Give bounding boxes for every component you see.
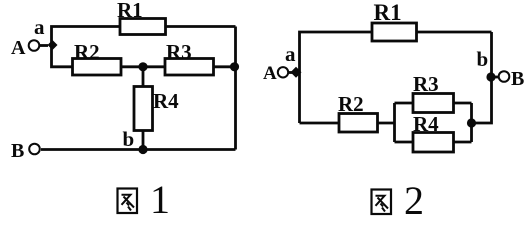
svg-text:R2: R2 <box>338 92 364 116</box>
svg-text:R4: R4 <box>413 112 439 136</box>
svg-text:R1: R1 <box>117 0 143 22</box>
svg-text:B: B <box>11 140 24 162</box>
wire circuit2 R3 branch left stub <box>395 102 414 105</box>
svg-text:a: a <box>285 42 296 66</box>
wire circuit2 R2 right to parallel junction <box>378 122 395 125</box>
wire circuit2 right bracket of parallel R3 R4 <box>470 103 473 142</box>
caption figure 2 glyph tu (drawn) <box>372 190 392 215</box>
wire circuit1 right vertical rail <box>234 27 237 150</box>
terminal B circle (circuit 1) <box>29 144 40 155</box>
node a junction dot (circuit 2) <box>291 67 302 78</box>
resistor R3 (circuit 2) <box>413 94 454 113</box>
svg-text:2: 2 <box>404 178 424 220</box>
junction dot parallel output (circuit 2) <box>467 118 476 127</box>
wire circuit2 right vertical rail <box>472 32 492 123</box>
wire circuit2 left bracket of parallel R3 R4 <box>393 103 396 142</box>
terminal A circle (circuit 1) <box>29 40 40 51</box>
junction dot R2/R3/R4 node (circuit 1) <box>138 62 147 71</box>
svg-text:R2: R2 <box>74 40 100 64</box>
terminal B circle (circuit 2) <box>499 71 510 82</box>
svg-text:B: B <box>511 68 524 90</box>
svg-text:1: 1 <box>150 177 170 220</box>
resistor R4 (circuit 1, vertical) <box>134 87 153 131</box>
terminal A circle (circuit 2) <box>278 67 288 77</box>
svg-text:R3: R3 <box>413 72 439 96</box>
wire circuit1 junction down to R4 <box>142 67 145 87</box>
svg-text:A: A <box>11 37 26 59</box>
wire circuit2 R4 branch right stub <box>454 141 472 144</box>
resistor R4 (circuit 2) <box>413 133 454 153</box>
svg-text:A: A <box>263 63 277 84</box>
wire circuit1 R1 right to right rail <box>166 25 236 28</box>
junction dot R3 right on right rail (circuit 1) <box>230 62 239 71</box>
svg-text:b: b <box>123 127 135 151</box>
svg-text:R3: R3 <box>166 40 192 64</box>
svg-text:a: a <box>34 15 45 39</box>
svg-text:R4: R4 <box>153 89 179 113</box>
resistor R3 (circuit 1) <box>165 59 214 76</box>
wire circuit2 bottom rail to R2 <box>300 122 340 125</box>
wire circuit2 terminal A stub <box>288 71 294 74</box>
node b junction dot (circuit 1) <box>138 145 147 154</box>
wire circuit1 R3 right to right rail <box>214 65 236 68</box>
wire circuit2 R1 right to right rail <box>417 31 492 34</box>
resistor R2 (circuit 1) <box>73 59 122 76</box>
wire circuit1 bottom rail <box>41 148 236 151</box>
wire circuit2 R3 branch right stub <box>454 102 472 105</box>
wire circuit2 left vertical rail <box>300 32 373 123</box>
resistor R1 (circuit 1) <box>120 19 166 35</box>
svg-text:b: b <box>477 47 489 71</box>
node b junction dot (circuit 2) <box>486 72 495 81</box>
wire circuit2 R4 branch left stub <box>395 141 414 144</box>
wire circuit2 terminal B stub <box>492 76 499 79</box>
caption figure 1 glyph tu (drawn) <box>118 189 138 214</box>
wire circuit1 R2 to R3 <box>121 65 165 68</box>
resistor R2 (circuit 2) <box>339 114 378 133</box>
resistor R1 (circuit 2) <box>372 23 417 41</box>
wire circuit1 terminal A stub <box>40 44 48 47</box>
wire circuit1 R4 bottom to node b <box>142 131 145 150</box>
node a junction diamond (circuit 1) <box>48 40 58 50</box>
wire circuit1 node a down to R2 <box>52 45 73 67</box>
svg-text:R1: R1 <box>374 0 402 25</box>
wire circuit1 top rail from node a up to R1 <box>52 27 121 47</box>
